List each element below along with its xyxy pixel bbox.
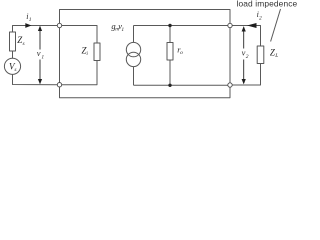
arrow: voltage v1 (double headed, down) bbox=[38, 26, 42, 85]
voltage source Vs (circle) bbox=[4, 58, 20, 74]
wire: bottom inner segment gm source to output node bbox=[134, 84, 231, 86]
svg-text:1: 1 bbox=[41, 54, 44, 60]
node: output port bottom (open circle) bbox=[228, 83, 232, 87]
wire: top inner segment gm source to output node bbox=[134, 25, 231, 27]
wire: ZL bottom to output bottom node bbox=[230, 64, 261, 86]
wire: output node to ZL top bbox=[230, 26, 261, 47]
svg-text:1: 1 bbox=[121, 27, 124, 33]
node: input port bottom (open circle) bbox=[57, 83, 61, 87]
svg-text:2: 2 bbox=[246, 54, 249, 60]
wire: lead Zs to Vs bbox=[12, 51, 14, 58]
arrow: current i1 (points right) bbox=[25, 23, 31, 28]
svg-text:i: i bbox=[86, 51, 88, 57]
wire: source bottom from Vs to bottom-left node bbox=[13, 74, 60, 85]
junction dot: ro bottom bbox=[168, 84, 171, 87]
wire: ro top lead bbox=[169, 26, 171, 43]
node: input port top (open circle) bbox=[57, 23, 61, 27]
wire: ro bottom lead bbox=[169, 60, 171, 85]
junction dot: ro top bbox=[168, 24, 171, 27]
wire: outer loop (top rail, left vertical, right vertical, bottom rail) bbox=[60, 10, 231, 98]
wire: input top from Zs to input node bbox=[13, 26, 60, 33]
pointer line from "load impedence" label to ZL bbox=[271, 9, 281, 42]
resistor ro (box) bbox=[167, 43, 173, 61]
wire: gm source bottom lead bbox=[133, 67, 135, 86]
arrow: voltage v2 (double headed, down) bbox=[242, 26, 246, 84]
impedance Zs (box) bbox=[10, 32, 16, 51]
arrow: current i2 (points left, into network) bbox=[247, 23, 257, 28]
svg-text:o: o bbox=[180, 50, 183, 56]
current source gm*v1 (two overlapping circles) bbox=[126, 42, 140, 56]
load impedance ZL (box) bbox=[257, 46, 264, 64]
svg-text:1: 1 bbox=[29, 17, 32, 23]
wire: top-left inner segment node to Zi top lead bbox=[60, 26, 98, 44]
svg-text:2: 2 bbox=[259, 16, 262, 22]
svg-text:L: L bbox=[274, 53, 278, 59]
svg-text:load impedence: load impedence bbox=[237, 0, 298, 9]
node: output port top (open circle) bbox=[228, 23, 232, 27]
impedance Zi (box) bbox=[94, 43, 100, 61]
wire: gm source top lead bbox=[133, 26, 135, 43]
svg-text:s: s bbox=[14, 67, 16, 73]
wire: Zi bottom lead to bottom-left node bbox=[60, 61, 98, 85]
svg-text:v: v bbox=[37, 48, 41, 58]
svg-text:s: s bbox=[23, 41, 25, 47]
